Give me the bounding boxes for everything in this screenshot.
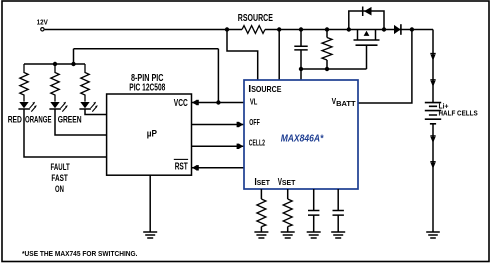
wire VL feed	[74, 49, 219, 103]
wire RST	[192, 167, 245, 169]
wire uP ground	[149, 175, 151, 232]
resistor VSET	[283, 189, 292, 232]
transistor Q1 p-channel MOSFET	[354, 30, 380, 70]
svg-text:MAX846A*: MAX846A*	[281, 133, 325, 144]
ground ISET	[254, 232, 268, 238]
capacitor C3	[333, 189, 344, 232]
IC U2 PIC12C508 microcontroller	[107, 73, 192, 175]
wire OFF	[192, 124, 245, 126]
diode D3	[430, 54, 435, 61]
svg-text:ISET: ISET	[254, 176, 270, 188]
ground uP	[143, 232, 157, 238]
resistor gate pulldown	[322, 30, 332, 70]
svg-text:ISOURCE: ISOURCE	[248, 83, 281, 95]
svg-text:ORANGE: ORANGE	[25, 114, 52, 125]
wire VCC to VL	[192, 102, 245, 104]
terminal 12V	[37, 17, 48, 31]
ground C2	[307, 232, 321, 238]
svg-text:VBATT: VBATT	[332, 97, 357, 108]
wire CELL2	[192, 145, 245, 147]
node junction VL feed	[216, 100, 220, 104]
svg-text:RSOURCE: RSOURCE	[238, 13, 273, 24]
node junction resistor top	[325, 27, 329, 31]
wire rail after RSOURCE	[265, 29, 433, 31]
wire ISOURCE pin 2	[278, 30, 280, 81]
pin arrow into CELL2	[239, 144, 243, 149]
ground C3	[331, 232, 345, 238]
resistor LED green	[81, 64, 89, 102]
ground VSET	[281, 232, 295, 238]
wire jog to ISOURCE pin 1	[227, 30, 258, 81]
diode D5	[430, 136, 435, 143]
node junction cap top	[299, 27, 303, 31]
svg-text:RED: RED	[8, 114, 22, 125]
node junction right of RSOURCE	[277, 27, 281, 31]
svg-text:GREEN: GREEN	[58, 115, 82, 126]
node junction diode loop left	[347, 27, 351, 31]
node junction diode loop right	[382, 27, 386, 31]
capacitor C2	[308, 189, 319, 232]
svg-text:RST: RST	[175, 161, 188, 172]
wire VBATT	[358, 30, 412, 104]
node junction branch 2	[53, 62, 57, 66]
svg-text:VSET: VSET	[278, 176, 296, 188]
battery BT1 Li+ half cells	[425, 102, 478, 124]
diode D4	[430, 80, 435, 87]
ground battery	[426, 232, 440, 238]
node junction left of RSOURCE	[225, 27, 229, 31]
svg-text:VL: VL	[250, 97, 258, 107]
wire LED supply rail	[24, 63, 85, 65]
pin arrow into RST	[192, 165, 196, 170]
diode D1 across MOSFET	[349, 7, 384, 30]
svg-text:FAULT: FAULT	[51, 162, 71, 172]
svg-text:FAST: FAST	[51, 173, 68, 183]
svg-text:CELL2: CELL2	[249, 138, 265, 148]
resistor LED orange	[51, 64, 59, 102]
diode D2 series charge diode	[394, 24, 401, 35]
IC U1 MAX846A charger	[244, 80, 358, 189]
wire 12V rail	[45, 29, 242, 31]
svg-text:PIC 12C508: PIC 12C508	[129, 83, 165, 94]
svg-text:*USE THE MAX745 FOR SWITCHING.: *USE THE MAX745 FOR SWITCHING.	[22, 249, 138, 258]
LED green	[79, 102, 97, 112]
svg-text:ON: ON	[55, 184, 64, 194]
wire gate drive	[301, 68, 367, 70]
node junction VBATT tap	[410, 27, 414, 31]
resistor ISET	[257, 189, 266, 232]
svg-text:OFF: OFF	[249, 117, 259, 127]
wire LED orange to uP FAST	[55, 109, 107, 135]
wire LED red to uP FAULT	[24, 109, 107, 157]
pin arrow into OFF	[239, 122, 243, 127]
wire LED green to uP ON	[85, 109, 107, 115]
pin arrow into VCC	[192, 100, 196, 105]
resistor LED red	[20, 64, 28, 102]
wire battery branch top	[432, 30, 434, 103]
node junction resistor bottom	[325, 67, 329, 71]
wire battery branch bottom	[432, 124, 434, 232]
resistor RSOURCE	[238, 13, 273, 33]
diode D6	[430, 162, 435, 169]
capacitor C1	[294, 30, 307, 81]
LED orange	[49, 102, 67, 112]
svg-text:12V: 12V	[37, 17, 48, 26]
svg-text:µP: µP	[147, 129, 157, 139]
svg-text:VCC: VCC	[174, 98, 188, 109]
node junction LED rail feed	[71, 62, 75, 66]
LED red	[18, 102, 36, 112]
svg-text:HALF CELLS: HALF CELLS	[439, 109, 478, 118]
node junction cap bottom / DRV	[299, 67, 303, 71]
